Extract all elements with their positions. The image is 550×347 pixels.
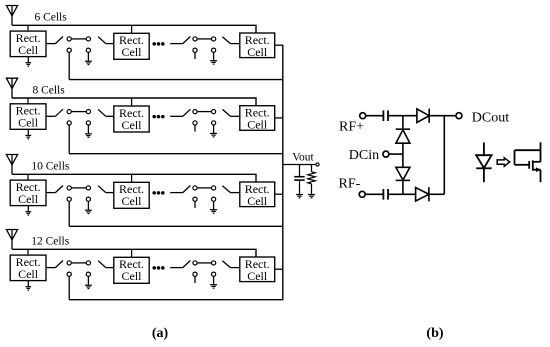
switch2 left blade row4 [183, 261, 191, 268]
wire stub bus to left cell row1 [27, 25, 29, 31]
switch contact row3 sw1 B-low [86, 197, 90, 201]
wire left cell to ground row4 [27, 281, 29, 287]
switch contact row1 sw1 B [86, 37, 90, 41]
transistor M1 source arrow [536, 167, 541, 172]
wire left cell to switch1 row1 [46, 43, 55, 45]
svg-text:Cell: Cell [18, 43, 39, 57]
diode symbol (equivalence left) [476, 142, 491, 182]
wire stub bus to middle cell row1 [131, 25, 133, 33]
terminal Vout [316, 163, 319, 166]
ellipsis dots row4 [152, 266, 164, 270]
antenna row2 [6, 78, 17, 98]
capacitor C2 [383, 189, 388, 200]
wire between switch2 contacts row1 [197, 38, 211, 40]
wire left cell to ground row2 [27, 129, 29, 135]
svg-text:Cell: Cell [247, 194, 268, 208]
switch1 left blade row3 [55, 186, 63, 193]
antenna row4 [6, 230, 17, 250]
switch1 right blade row1 [98, 37, 106, 44]
rectifier cell box row2 middle [114, 106, 149, 132]
rectifier cell box row3 middle [114, 182, 149, 208]
ground row2 sw1 [85, 134, 92, 137]
svg-text:Cell: Cell [122, 269, 143, 283]
svg-text:DCin: DCin [349, 148, 379, 163]
wire top bus row4 [12, 249, 256, 257]
wire between switch1 contacts row3 [71, 187, 86, 189]
svg-text:(a): (a) [152, 326, 169, 341]
wire capacitor to ground [299, 181, 301, 195]
switch contact row2 sw2 B-low [212, 121, 216, 125]
switch1 right blade row4 [98, 261, 106, 268]
wire switch1 to middle cell row2 [106, 115, 114, 117]
diode D1 [396, 129, 410, 143]
switch1 left blade row1 [55, 37, 63, 44]
wire between switch1 contacts row2 [71, 111, 86, 113]
switch2 right blade row2 [222, 109, 230, 116]
rectifier cell box row4 right [240, 257, 275, 283]
switch contact row4 sw1 B-low [86, 272, 90, 276]
capacitor C-load [294, 177, 304, 180]
wire D3 to DCout [429, 115, 456, 117]
terminal DCin [383, 151, 389, 157]
wire top bus row2 [12, 98, 256, 106]
wire node X down to diode D1 [402, 116, 404, 130]
svg-text:Cell: Cell [122, 45, 143, 59]
wire sw1 lower contact to bottom bus row1 [68, 52, 70, 79]
svg-text:DCout: DCout [472, 111, 509, 126]
wire switch2 to right cell row1 [230, 43, 239, 45]
equivalence arrow [497, 158, 510, 166]
switch contact row4 sw1 B [86, 261, 90, 265]
wire switch1 to middle cell row3 [106, 192, 114, 194]
svg-text:RF+: RF+ [339, 120, 364, 135]
wire sw2 lower contact to ground row3 [213, 201, 215, 209]
svg-text:Cell: Cell [18, 116, 39, 130]
svg-text:8 Cells: 8 Cells [32, 84, 65, 96]
switch contact row1 sw1 B-low [86, 48, 90, 52]
switch contact row3 sw1 A-low [67, 197, 71, 201]
ground row3 left cell [25, 212, 31, 215]
wire left cell to switch1 row3 [46, 192, 55, 194]
wire dots to switch2 row4 [170, 267, 183, 269]
wire right cell to vertical bus row1 [275, 44, 284, 46]
wire stub sw2 lower contact row3 [194, 201, 196, 208]
wire stub bus to middle cell row4 [131, 249, 133, 257]
wire sw1 lower contact to ground row3 [87, 201, 89, 210]
wire sw1 lower contact to bottom bus row4 [68, 276, 70, 299]
wire right vertical bus [282, 45, 284, 300]
wire stub bus to middle cell row3 [131, 174, 133, 182]
svg-text:12 Cells: 12 Cells [31, 236, 70, 248]
wire between switch1 contacts row1 [71, 38, 86, 40]
svg-text:Cell: Cell [18, 192, 39, 206]
wire switch2 to right cell row3 [230, 192, 239, 194]
rectifier cell box row1 left [10, 31, 46, 57]
wire dots to switch2 row1 [170, 43, 183, 45]
wire dots to switch2 row3 [170, 192, 183, 194]
switch contact row3 sw2 A [193, 186, 197, 190]
wire sw1 lower contact to ground row2 [87, 125, 89, 134]
ground row2 left cell [25, 135, 31, 138]
wire sw1 lower contact to ground row1 [87, 52, 89, 61]
wire DCin node to diode D2 [402, 154, 404, 167]
ground load resistor [308, 195, 315, 198]
svg-text:Cell: Cell [122, 118, 143, 132]
switch contact row2 sw2 A-low [193, 121, 197, 125]
switch contact row2 sw1 B [86, 110, 90, 114]
switch contact row1 sw1 A-low [67, 48, 71, 52]
wire stub bus to left cell row4 [27, 249, 29, 255]
ground row4 sw2 [210, 285, 217, 288]
wire stub bus to left cell row3 [27, 174, 29, 180]
wire bottom bus row4 [69, 299, 283, 301]
svg-text:RF-: RF- [339, 177, 361, 192]
wire top bus row1 [12, 25, 256, 33]
antenna row1 [6, 6, 17, 26]
resistor R-load [308, 172, 315, 184]
switch contact row3 sw2 B-low [212, 197, 216, 201]
svg-text:(b): (b) [426, 326, 443, 341]
switch2 right blade row1 [222, 37, 230, 44]
wire sw2 lower contact to ground row1 [213, 52, 215, 60]
wire switch1 to middle cell row4 [106, 267, 114, 269]
wire D1 to DCin node [402, 143, 404, 154]
wire C1 to diode D3 [388, 115, 417, 117]
terminal RF+ [360, 113, 366, 119]
ground load capacitor [296, 195, 303, 198]
svg-text:10 Cells: 10 Cells [31, 161, 70, 173]
switch2 right blade row3 [222, 186, 230, 193]
switch1 left blade row2 [55, 109, 63, 116]
switch contact row2 sw2 B [212, 110, 216, 114]
switch contact row2 sw1 A-low [67, 121, 71, 125]
wire D4 to right branch [429, 193, 444, 195]
switch1 right blade row2 [98, 109, 106, 116]
rectifier cell box row4 left [10, 255, 46, 281]
wire dots to switch2 row2 [170, 115, 183, 117]
wire stub sw2 lower contact row4 [194, 276, 196, 283]
ground row3 sw2 [210, 210, 217, 213]
wire bottom bus row3 [69, 225, 283, 227]
wire switch2 to right cell row2 [230, 115, 239, 117]
switch contact row4 sw2 B-low [212, 272, 216, 276]
wire between switch2 contacts row3 [197, 187, 211, 189]
svg-text:Cell: Cell [247, 45, 268, 59]
wire DCin to node [389, 153, 403, 155]
wire between switch2 contacts row4 [197, 262, 211, 264]
svg-text:6 Cells: 6 Cells [34, 12, 67, 24]
ground row1 left cell [25, 63, 31, 66]
svg-text:Vout: Vout [292, 151, 314, 163]
wire top bus row3 [12, 174, 256, 182]
wire sw2 lower contact to ground row4 [213, 276, 215, 284]
capacitor C1 [383, 110, 388, 121]
wire left cell to switch1 row2 [46, 115, 55, 117]
wire Vout to resistor [311, 165, 313, 172]
wire right cell to vertical bus row4 [275, 268, 284, 270]
diode D2 [396, 167, 410, 180]
switch contact row2 sw1 A [67, 110, 71, 114]
svg-text:Cell: Cell [122, 194, 143, 208]
switch contact row1 sw2 A-low [193, 48, 197, 52]
switch contact row4 sw2 B [212, 261, 216, 265]
svg-text:Cell: Cell [247, 269, 268, 283]
ground row4 sw1 [85, 285, 92, 288]
rectifier cell box row1 right [240, 33, 275, 59]
rectifier cell box row2 right [240, 106, 275, 132]
rectifier cell box row2 left [10, 104, 46, 130]
wire bottom bus row2 [69, 153, 283, 155]
transistor M1 diode-connected NMOS [515, 142, 541, 182]
diode D3 [417, 109, 429, 123]
diode D4 [416, 187, 429, 201]
switch2 right blade row4 [222, 261, 230, 268]
switch1 left blade row4 [55, 261, 63, 268]
svg-text:Cell: Cell [247, 118, 268, 132]
wire sw1 lower contact to bottom bus row2 [68, 125, 70, 154]
switch contact row4 sw1 A [67, 261, 71, 265]
wire stub sw2 lower contact row1 [194, 52, 196, 59]
switch2 left blade row2 [183, 109, 191, 116]
wire right cell to vertical bus row3 [275, 193, 284, 195]
svg-text:Cell: Cell [18, 267, 39, 281]
wire RF- to capacitor C2 [365, 193, 383, 195]
wire RF+ to capacitor C1 [366, 115, 383, 117]
wire right cell to vertical bus row2 [275, 117, 284, 119]
switch contact row1 sw2 B-low [212, 48, 216, 52]
ellipsis dots row1 [152, 42, 164, 46]
wire between switch1 contacts row4 [71, 262, 86, 264]
wire resistor to ground [311, 184, 313, 194]
switch contact row3 sw2 B [212, 186, 216, 190]
rectifier cell box row3 left [10, 180, 46, 206]
wire bottom bus row1 [69, 79, 283, 81]
switch1 right blade row3 [98, 186, 106, 193]
switch contact row1 sw2 A [193, 37, 197, 41]
ellipsis dots row3 [152, 191, 164, 195]
wire sw2 lower contact to ground row2 [213, 125, 215, 133]
switch contact row3 sw2 A-low [193, 197, 197, 201]
switch contact row3 sw1 A [67, 186, 71, 190]
wire switch2 to right cell row4 [230, 267, 239, 269]
switch contact row1 sw1 A [67, 37, 71, 41]
ground row2 sw2 [210, 133, 217, 136]
switch contact row3 sw1 B [86, 186, 90, 190]
wire sw1 lower contact to ground row4 [87, 276, 89, 285]
node Vout wire [283, 164, 316, 166]
terminal DCout [456, 113, 462, 119]
rectifier cell box row1 middle [114, 33, 149, 59]
wire D2 to RF- line [402, 180, 404, 194]
wire right vertical branch [443, 116, 445, 195]
switch contact row4 sw2 A [193, 261, 197, 265]
wire C2 to diode D4 [388, 193, 416, 195]
wire sw1 lower contact to bottom bus row3 [68, 201, 70, 226]
switch contact row1 sw2 B [212, 37, 216, 41]
ellipsis dots row2 [152, 115, 164, 119]
switch contact row2 sw2 A [193, 110, 197, 114]
ground row1 sw1 [85, 61, 92, 64]
wire left cell to switch1 row4 [46, 267, 55, 269]
wire Vout to capacitor [299, 165, 301, 177]
switch2 left blade row3 [183, 186, 191, 193]
wire stub sw2 lower contact row2 [194, 125, 196, 132]
switch contact row4 sw1 A-low [67, 272, 71, 276]
wire stub bus to left cell row2 [27, 98, 29, 104]
wire left cell to ground row3 [27, 206, 29, 212]
rectifier cell box row4 middle [114, 257, 149, 283]
ground row4 left cell [25, 287, 31, 290]
ground row3 sw1 [85, 210, 92, 213]
ground row1 sw2 [210, 61, 217, 64]
antenna row3 [6, 155, 17, 175]
switch contact row2 sw1 B-low [86, 121, 90, 125]
wire between switch2 contacts row2 [197, 111, 211, 113]
terminal RF- [359, 191, 365, 197]
wire switch1 to middle cell row1 [106, 43, 114, 45]
switch contact row4 sw2 A-low [193, 272, 197, 276]
wire stub bus to middle cell row2 [131, 98, 133, 106]
wire left cell to ground row1 [27, 57, 29, 63]
rectifier cell box row3 right [240, 182, 275, 208]
switch2 left blade row1 [183, 37, 191, 44]
